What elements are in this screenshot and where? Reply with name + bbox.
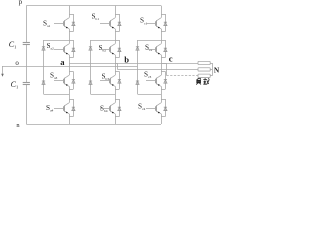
wire: phase b output jog	[116, 64, 118, 70]
switch Sa2 (IGBT + antiparallel diode)	[54, 40, 75, 58]
svg-text:p: p	[19, 0, 23, 6]
load resistor 1	[198, 61, 210, 64]
wire: c-leg j3-S4 link	[161, 94, 163, 99]
svg-text:N: N	[214, 65, 220, 74]
switch Sb3 (IGBT + antiparallel diode)	[100, 72, 121, 90]
switch Sc4 (IGBT + antiparallel diode)	[146, 99, 167, 117]
wire: load resistor 1 right lead	[210, 63, 212, 65]
load resistor 2	[198, 68, 210, 71]
wire: b-leg S1-S2 link	[115, 32, 117, 41]
switch Sb2 (IGBT + antiparallel diode)	[100, 40, 121, 58]
wire: b-leg clamp bottom connector (j3)	[91, 94, 116, 96]
switch Sa1 (IGBT + antiparallel diode)	[54, 14, 75, 32]
wire: negative dc rail n	[26, 124, 161, 126]
wire: load common N vertical	[212, 63, 214, 76]
wire: positive dc rail p	[26, 5, 161, 7]
wire: c-leg clamp branch vertical	[137, 40, 139, 94]
diode Da1 (upper clamp)	[42, 46, 45, 48]
diode Dc2 (lower clamp)	[136, 80, 139, 82]
diode Da2 (lower clamp)	[42, 80, 45, 82]
wire: a-leg output-S3 link	[69, 63, 71, 72]
wire: b-leg output-S3 link	[115, 63, 117, 72]
wire: a-leg clamp bottom connector (j3)	[44, 94, 70, 96]
wire: phase c output (dashed)	[167, 75, 199, 77]
wire: a-leg j3-S4 link	[69, 94, 71, 99]
wire: a-leg S2-output link	[69, 58, 71, 64]
capacitor C1 (lower)	[11, 80, 30, 90]
wire: phase a output	[69, 63, 198, 65]
svg-text:a: a	[60, 57, 65, 67]
wire: b-leg j3-S4 link	[115, 94, 117, 99]
switch Sc2 (IGBT + antiparallel diode)	[146, 40, 167, 58]
switch Sb4 (IGBT + antiparallel diode)	[100, 99, 121, 117]
switch Sc3 (IGBT + antiparallel diode)	[146, 72, 167, 90]
wire: c-leg S3-j3 link	[161, 89, 163, 94]
wire: a-leg S3-j3 link	[69, 89, 71, 94]
diode Db1 (upper clamp)	[89, 46, 92, 48]
wire: a-leg clamp branch vertical	[43, 40, 45, 94]
wire: c-leg S1-S2 link	[161, 32, 163, 41]
wire: c-leg top drop	[161, 6, 163, 14]
wire: o terminal arrow	[1, 66, 4, 77]
switch Sa3 (IGBT + antiparallel diode)	[54, 72, 75, 90]
wire: b-leg clamp top connector (j1)	[91, 40, 116, 42]
wire: c-leg S2-output link	[161, 58, 163, 64]
wire: c-leg clamp top connector (j1)	[138, 40, 162, 42]
diode Db2 (lower clamp)	[89, 80, 92, 82]
wire: a-leg clamp top connector (j1)	[44, 40, 70, 42]
wire: a-leg top drop	[69, 6, 71, 14]
wire: b-leg S3-j3 link	[115, 89, 117, 94]
wire: phase c output jog	[162, 64, 167, 76]
wire: b-leg clamp branch vertical	[90, 40, 92, 94]
switch Sa4 (IGBT + antiparallel diode)	[54, 99, 75, 117]
wire: left dc-link bus	[26, 6, 28, 43]
svg-text:c: c	[169, 54, 173, 64]
switch Sb1 (IGBT + antiparallel diode)	[100, 14, 121, 32]
wire: a-leg bottom drop	[69, 117, 71, 125]
capacitor C1 (upper)	[9, 40, 30, 50]
load text 负载	[196, 78, 209, 85]
wire: b-leg S2-output link	[115, 58, 117, 64]
wire: c-leg clamp bottom connector (j3)	[138, 94, 162, 96]
wire: c-leg bottom drop	[161, 117, 163, 125]
load resistor 3	[198, 74, 210, 77]
wire: c-leg output-S3 link	[161, 63, 163, 72]
wire: phase b output	[118, 69, 199, 71]
wire: b-leg bottom drop	[115, 117, 117, 125]
wire: load resistor 3 right lead	[210, 75, 212, 77]
wire: load resistor 2 right lead	[210, 69, 212, 71]
wire: neutral o bus	[2, 66, 138, 68]
wire: a-leg S1-S2 link	[69, 32, 71, 41]
switch Sc1 (IGBT + antiparallel diode)	[146, 14, 167, 32]
wire: b-leg top drop	[115, 6, 117, 14]
diode Dc1 (upper clamp)	[136, 46, 139, 48]
